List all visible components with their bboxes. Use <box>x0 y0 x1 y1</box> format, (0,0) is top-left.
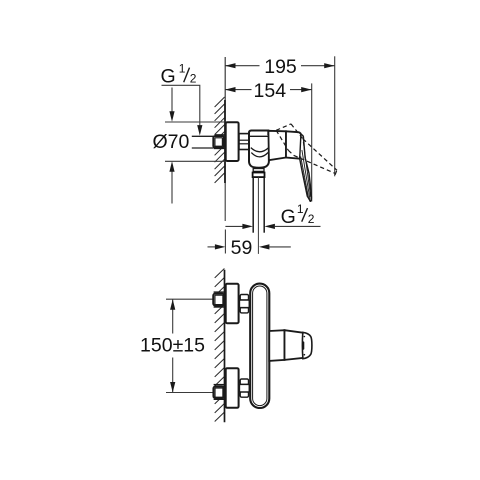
svg-text:G: G <box>161 66 176 88</box>
wall hatching (front view) <box>215 269 225 422</box>
svg-text:154: 154 <box>254 80 287 102</box>
leader G1/2 bottom <box>225 225 243 227</box>
body dome arc upper <box>251 148 269 152</box>
supply nipple behind wall (top view) <box>213 135 225 149</box>
union nut (top view) <box>239 134 250 150</box>
wall line (front view) <box>224 270 226 422</box>
dimension 150±15 <box>172 299 174 333</box>
dimension Ø70 <box>171 88 173 119</box>
svg-text:G: G <box>281 206 296 228</box>
svg-text:2: 2 <box>308 212 315 226</box>
dimension 154 <box>225 83 312 201</box>
wall extension line (59) <box>224 230 226 254</box>
body cap ring line <box>249 135 268 137</box>
svg-text:150±15: 150±15 <box>140 335 205 357</box>
capsule inner line <box>253 286 267 406</box>
shower hose lines <box>252 177 254 233</box>
svg-text:Ø70: Ø70 <box>153 131 190 153</box>
svg-text:1: 1 <box>297 202 304 216</box>
body dome arc lower <box>251 153 268 157</box>
lever raised position (dashed) <box>276 124 337 175</box>
handle cap (side view) <box>286 131 302 158</box>
svg-text:1: 1 <box>179 62 186 76</box>
hose centre line / extension <box>257 177 259 254</box>
dimension 195 <box>225 56 335 176</box>
handle dome (front view) <box>302 332 312 358</box>
handle screw dots <box>304 336 306 338</box>
union nut bottom (front view) <box>239 379 249 397</box>
shower outlet ridge <box>253 169 264 172</box>
handle neck (front view) <box>269 330 284 361</box>
wall flange / escutcheon (top view) <box>226 122 239 161</box>
supply nipple top (front view) <box>213 292 224 307</box>
cartridge housing (side view) <box>268 131 286 160</box>
dimension 59 <box>208 246 216 248</box>
mixer body (side view) <box>249 131 269 168</box>
supply centre line top <box>166 298 214 300</box>
svg-text:59: 59 <box>231 237 253 259</box>
wall hatching (top view) <box>215 97 225 183</box>
handle lever body (front view) <box>285 330 303 360</box>
svg-text:2: 2 <box>190 72 197 86</box>
supply centre line bottom <box>166 392 214 394</box>
mixer body capsule (front view) <box>250 284 269 408</box>
escutcheon top (front view) <box>226 284 239 323</box>
handle slot mark <box>302 341 304 349</box>
svg-text:195: 195 <box>264 56 297 78</box>
union nut top (front view) <box>239 295 249 313</box>
shower hose nut <box>253 173 265 178</box>
escutcheon bottom (front view) <box>226 368 239 408</box>
lever handle (side view, solid) <box>300 135 312 202</box>
wall line (top view) <box>224 57 226 100</box>
leader G1/2 top <box>162 85 200 131</box>
supply nipple bottom (front view) <box>213 385 224 400</box>
supply pipe (top view) <box>192 135 214 137</box>
